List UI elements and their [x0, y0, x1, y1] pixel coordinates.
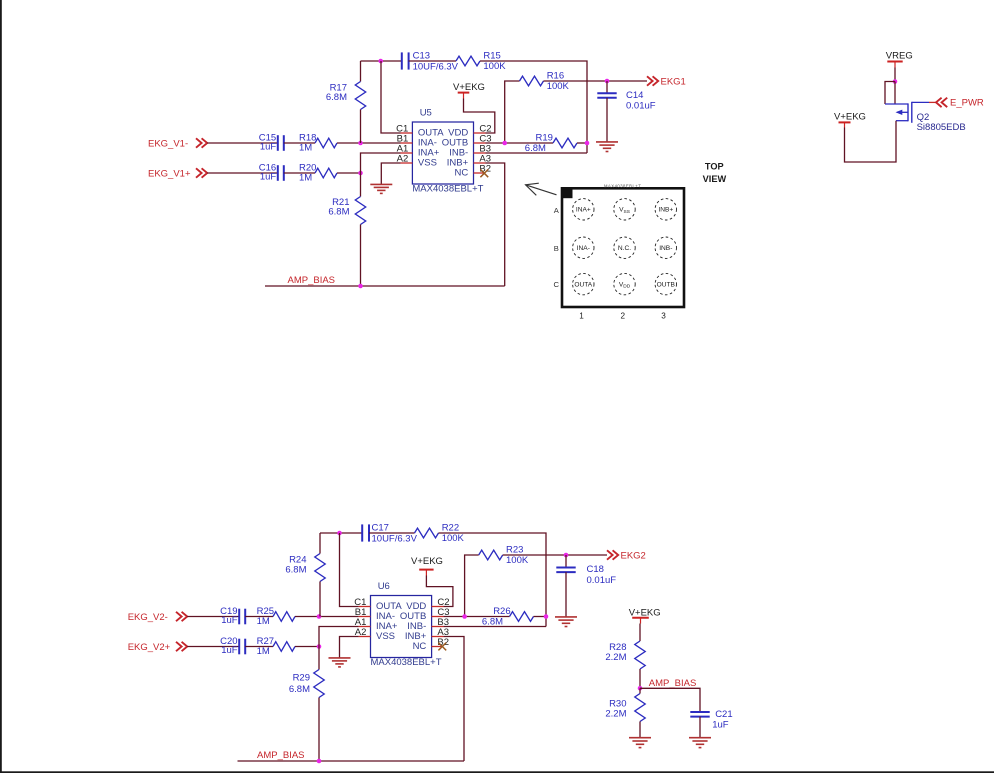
port EKG2 — [607, 550, 646, 561]
pad B1 INA- — [573, 237, 594, 258]
node VREG junction — [893, 79, 898, 84]
svg-text:1M: 1M — [257, 646, 270, 657]
wire — [640, 688, 700, 712]
svg-text:EKG_V2+: EKG_V2+ — [128, 642, 171, 653]
net AMP_BIAS — [257, 750, 305, 761]
U6 pin B1 — [355, 607, 371, 618]
resistor R26 — [482, 606, 534, 627]
svg-text:NC: NC — [454, 168, 468, 179]
svg-text:1uF: 1uF — [221, 645, 238, 656]
svg-text:100K: 100K — [506, 555, 529, 566]
port EKG1 — [647, 76, 686, 87]
svg-text:10UF/6.3V: 10UF/6.3V — [413, 61, 459, 72]
svg-text:C13: C13 — [413, 51, 430, 62]
svg-text:V+EKG: V+EKG — [453, 82, 485, 93]
wire — [207, 142, 278, 144]
U5 pin B3 — [474, 144, 492, 155]
wire — [480, 61, 587, 153]
U6 pin C3 — [432, 607, 450, 618]
wire — [265, 285, 505, 287]
svg-text:EKG_V1+: EKG_V1+ — [148, 168, 191, 179]
svg-text:0.01uF: 0.01uF — [626, 101, 656, 112]
svg-text:AMP_BIAS: AMP_BIAS — [288, 275, 336, 286]
node C3 junction — [502, 141, 507, 146]
node EKG_V2+ junction — [317, 644, 322, 649]
port EKG_V1- — [148, 138, 207, 149]
node R19 junction — [585, 141, 590, 146]
svg-text:6.8M: 6.8M — [285, 564, 306, 575]
wire — [318, 698, 320, 762]
capacitor C13 — [402, 51, 459, 73]
svg-text:3: 3 — [661, 312, 666, 321]
U6 pin B3 — [432, 617, 450, 628]
wire — [439, 533, 547, 627]
ground — [596, 142, 618, 152]
svg-text:100K: 100K — [483, 61, 506, 72]
U6 pin A1 — [355, 617, 371, 628]
svg-text:1M: 1M — [299, 143, 312, 154]
svg-text:INB-: INB- — [659, 245, 672, 252]
port E_PWR — [936, 98, 984, 109]
package outline — [561, 184, 684, 307]
U5 pin A2 — [397, 154, 413, 165]
svg-text:EKG_V1-: EKG_V1- — [148, 138, 188, 149]
svg-text:6.8M: 6.8M — [289, 684, 310, 695]
svg-text:C18: C18 — [587, 564, 604, 575]
wire — [894, 82, 896, 104]
ground — [329, 658, 351, 667]
svg-text:E_PWR: E_PWR — [950, 98, 984, 109]
ground — [689, 738, 711, 748]
wire — [360, 225, 362, 287]
svg-text:C21: C21 — [715, 709, 732, 720]
wire — [295, 646, 319, 648]
wire — [369, 532, 415, 534]
no-connect X on B2 — [480, 169, 488, 177]
svg-text:MAX4038EBL+T: MAX4038EBL+T — [604, 184, 641, 189]
node EKG_V1+ junction — [358, 171, 363, 176]
wire — [464, 99, 495, 134]
wire — [699, 717, 701, 738]
pad A3 INB+ — [655, 199, 676, 220]
resistor R15 — [456, 50, 506, 71]
package column label 3 — [661, 312, 666, 321]
svg-text:NC: NC — [413, 641, 427, 652]
svg-text:AMP_BIAS: AMP_BIAS — [257, 750, 305, 761]
svg-text:B: B — [554, 244, 559, 253]
wire — [340, 637, 359, 658]
node C3 junction — [462, 614, 467, 619]
wire — [443, 616, 509, 618]
op-amp U5 — [412, 107, 483, 194]
svg-text:10UF/6.3V: 10UF/6.3V — [372, 533, 418, 544]
capacitor C20 — [220, 636, 245, 656]
resistor R18 — [299, 133, 337, 154]
svg-text:2: 2 — [621, 312, 626, 321]
power V+EKG — [453, 82, 485, 99]
power VREG — [886, 51, 913, 68]
wire — [187, 646, 239, 648]
pad B2 NC — [614, 237, 635, 258]
resistor R17 — [326, 82, 366, 110]
wire — [409, 60, 456, 62]
wire — [544, 80, 648, 82]
node EKG1 junction — [605, 79, 610, 84]
power V+EKG — [411, 556, 443, 576]
wire — [885, 82, 895, 105]
pad B3 INB- — [655, 237, 676, 258]
wire — [443, 637, 464, 762]
svg-text:C17: C17 — [372, 523, 389, 534]
net AMP_BIAS — [288, 275, 336, 286]
wire — [337, 172, 361, 174]
wire — [486, 142, 554, 144]
resistor R24 — [285, 554, 325, 582]
resistor R30 — [605, 694, 645, 722]
pad C1 OUTA — [573, 273, 594, 294]
resistor R28 — [605, 641, 645, 669]
svg-text:R19: R19 — [536, 132, 553, 143]
svg-text:1uF: 1uF — [221, 615, 238, 626]
wire — [845, 121, 897, 162]
svg-text:6.8M: 6.8M — [525, 143, 546, 154]
node B1 junction — [358, 141, 363, 146]
node B1 junction — [317, 614, 322, 619]
wire — [319, 627, 359, 647]
package row label A — [554, 206, 560, 215]
wire — [319, 533, 321, 554]
wire — [337, 142, 401, 144]
svg-text:6.8M: 6.8M — [328, 206, 349, 217]
package row label C — [554, 280, 560, 289]
wire — [565, 572, 567, 617]
resistor R25 — [257, 606, 295, 627]
svg-text:R23: R23 — [506, 544, 523, 555]
no-connect X on B2 — [438, 643, 446, 651]
svg-text:N.C.: N.C. — [618, 245, 631, 252]
node AMP_BIAS junction — [638, 686, 643, 691]
wire — [639, 624, 641, 642]
svg-text:1uF: 1uF — [260, 172, 277, 183]
resistor R29 — [289, 670, 324, 698]
svg-text:OUTA: OUTA — [574, 282, 592, 289]
wire — [443, 626, 546, 628]
package column label 2 — [621, 312, 626, 321]
svg-text:INA+: INA+ — [576, 207, 591, 214]
wire — [295, 616, 359, 618]
svg-text:1M: 1M — [299, 173, 312, 184]
transistor Q2 — [885, 102, 966, 133]
svg-text:AMP_BIAS: AMP_BIAS — [649, 678, 697, 689]
wire — [318, 647, 320, 670]
svg-text:TOP: TOP — [705, 162, 724, 172]
op-amp U6 — [371, 581, 442, 668]
pad A2 VSS — [614, 199, 635, 220]
wire — [207, 172, 278, 174]
resistor R27 — [257, 636, 295, 657]
svg-text:MAX4038EBL+T: MAX4038EBL+T — [371, 657, 442, 668]
wire — [319, 582, 321, 617]
svg-text:C: C — [554, 280, 560, 289]
svg-text:6.8M: 6.8M — [326, 92, 347, 103]
ground — [629, 738, 651, 748]
wire — [577, 142, 587, 144]
U6 pin C1 — [354, 597, 370, 608]
pad C2 VDD — [614, 273, 635, 294]
svg-text:V+EKG: V+EKG — [411, 556, 443, 567]
svg-text:100K: 100K — [442, 533, 465, 544]
U5 pin B2 — [474, 164, 492, 175]
svg-text:INA-: INA- — [577, 245, 590, 252]
wire — [465, 555, 479, 617]
resistor R21 — [328, 197, 365, 225]
svg-text:0.01uF: 0.01uF — [587, 575, 617, 586]
svg-text:Si8805EDB: Si8805EDB — [917, 122, 966, 133]
port EKG_V2- — [128, 612, 188, 623]
node EKG2 junction — [564, 553, 569, 558]
U5 pin C3 — [474, 134, 492, 145]
node R26 junction — [544, 614, 549, 619]
net AMP_BIAS — [649, 678, 697, 689]
svg-text:6.8M: 6.8M — [482, 616, 503, 627]
resistor R19 — [525, 132, 577, 153]
wire — [486, 152, 588, 154]
power V+EKG — [629, 607, 661, 623]
svg-text:EKG2: EKG2 — [621, 550, 646, 561]
pad C3 OUTB — [655, 273, 676, 294]
U6 pin C2 — [432, 597, 450, 608]
ground — [555, 617, 577, 627]
svg-text:2.2M: 2.2M — [605, 708, 626, 719]
resistor R16 — [520, 71, 570, 92]
wire — [894, 68, 896, 82]
wire — [503, 554, 607, 556]
wire — [426, 576, 453, 607]
ground — [370, 184, 392, 193]
wire — [320, 532, 362, 534]
wire — [361, 60, 402, 62]
node top junction — [378, 59, 383, 64]
wire — [360, 110, 362, 144]
svg-text:U6: U6 — [378, 581, 390, 592]
U5 pin A3 — [474, 154, 492, 165]
U6 pin B2 — [432, 637, 450, 648]
svg-text:EKG1: EKG1 — [661, 76, 686, 87]
svg-text:EKG_V2-: EKG_V2- — [128, 612, 168, 623]
U6 pin A2 — [355, 627, 371, 638]
wire — [361, 153, 401, 173]
port EKG_V1+ — [148, 168, 207, 179]
svg-text:R29: R29 — [293, 673, 310, 684]
wire — [486, 163, 505, 286]
svg-text:VIEW: VIEW — [703, 174, 727, 184]
svg-text:R15: R15 — [483, 50, 500, 61]
svg-text:C14: C14 — [626, 90, 643, 101]
wire — [187, 616, 239, 618]
capacitor C14 — [597, 81, 655, 112]
svg-text:V+EKG: V+EKG — [834, 112, 866, 123]
capacitor C17 — [362, 523, 417, 545]
svg-text:R22: R22 — [442, 522, 459, 533]
svg-text:R26: R26 — [493, 606, 510, 617]
capacitor C18 — [556, 555, 616, 586]
svg-text:V+EKG: V+EKG — [629, 607, 661, 618]
wire — [505, 81, 520, 143]
resistor R20 — [299, 163, 337, 184]
wire — [534, 616, 547, 618]
U5 pin C1 — [396, 124, 412, 135]
wire — [245, 646, 273, 648]
svg-text:INB+: INB+ — [658, 207, 673, 214]
node AMP_BIAS junction — [358, 284, 363, 289]
svg-text:1uF: 1uF — [712, 720, 729, 731]
wire — [381, 61, 401, 133]
wire — [284, 172, 315, 174]
wire — [360, 173, 362, 197]
svg-text:OUTB: OUTB — [657, 282, 676, 289]
wire — [381, 163, 400, 184]
svg-text:U5: U5 — [420, 107, 432, 118]
capacitor C15 — [259, 133, 284, 153]
wire — [238, 760, 465, 762]
wire — [340, 533, 359, 607]
wire — [284, 142, 315, 144]
svg-text:MAX4038EBL+T: MAX4038EBL+T — [412, 183, 483, 194]
wire — [606, 98, 608, 142]
wire — [639, 688, 641, 693]
resistor R23 — [479, 544, 529, 565]
capacitor C16 — [259, 163, 284, 183]
U5 pin C2 — [474, 124, 492, 135]
svg-text:100K: 100K — [547, 81, 570, 92]
wire — [639, 669, 641, 688]
resistor R22 — [415, 522, 465, 543]
U5 pin A1 — [397, 144, 413, 155]
svg-text:1uF: 1uF — [260, 142, 277, 153]
wire — [245, 616, 273, 618]
wire — [360, 61, 362, 82]
arrow — [526, 183, 557, 195]
svg-text:1: 1 — [579, 312, 584, 321]
node AMP_BIAS junction — [317, 759, 322, 764]
svg-text:VSS: VSS — [376, 631, 395, 642]
U5 pin B1 — [397, 134, 413, 145]
svg-text:2.2M: 2.2M — [605, 652, 626, 663]
pad A1 INA+ — [573, 199, 594, 220]
svg-text:R16: R16 — [547, 71, 564, 82]
package label TOP VIEW — [703, 162, 727, 184]
svg-text:VREG: VREG — [886, 51, 913, 62]
capacitor C19 — [220, 606, 245, 626]
capacitor C21 — [690, 709, 732, 731]
wire — [929, 101, 936, 103]
power V+EKG — [834, 112, 866, 128]
svg-text:1M: 1M — [257, 616, 270, 627]
svg-text:VSS: VSS — [418, 158, 437, 169]
package column label 1 — [579, 312, 584, 321]
wire — [639, 722, 641, 738]
package row label B — [554, 244, 559, 253]
U6 pin A3 — [432, 627, 450, 638]
port EKG_V2+ — [128, 642, 188, 653]
node top junction — [337, 531, 342, 536]
